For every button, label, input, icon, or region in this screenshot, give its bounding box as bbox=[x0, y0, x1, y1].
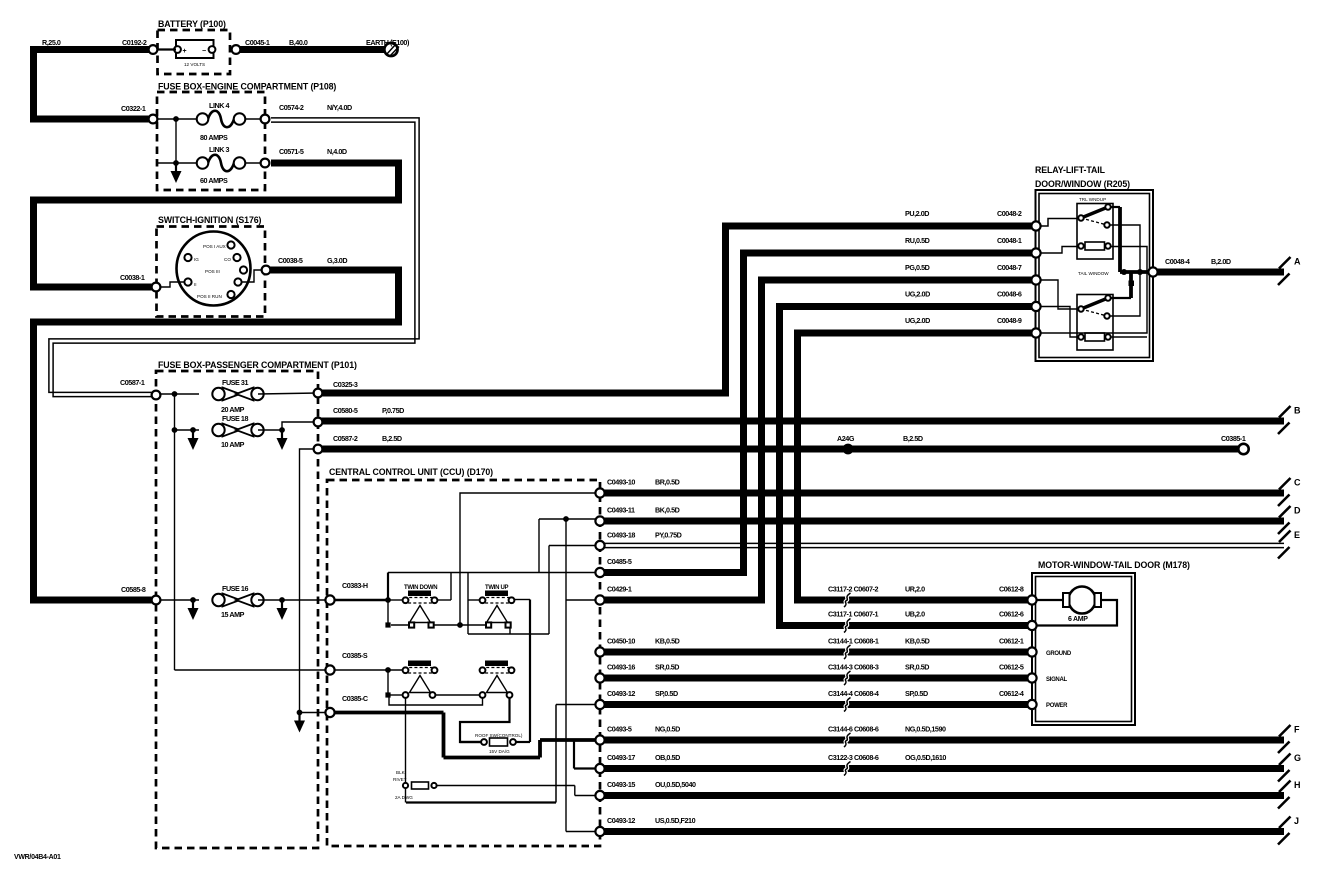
svg-text:IG: IG bbox=[194, 257, 199, 262]
svg-text:C3144-1 C0608-1: C3144-1 C0608-1 bbox=[828, 637, 879, 646]
svg-text:PU,2.0D: PU,2.0D bbox=[905, 209, 929, 218]
svg-text:C0612-6: C0612-6 bbox=[999, 610, 1024, 619]
svg-text:BATTERY (P100): BATTERY (P100) bbox=[158, 19, 226, 29]
svg-text:C3144-4 C0608-4: C3144-4 C0608-4 bbox=[828, 689, 879, 698]
svg-text:POWER: POWER bbox=[1046, 703, 1068, 709]
svg-text:US,0.5D,F210: US,0.5D,F210 bbox=[655, 816, 696, 825]
svg-text:C0493-17: C0493-17 bbox=[607, 753, 635, 762]
svg-text:B,2.5D: B,2.5D bbox=[903, 434, 923, 443]
svg-text:A24G: A24G bbox=[837, 434, 855, 443]
svg-text:C3144-6 C0608-6: C3144-6 C0608-6 bbox=[828, 725, 879, 734]
svg-text:R,25.0: R,25.0 bbox=[42, 38, 61, 47]
svg-text:C0048-1: C0048-1 bbox=[997, 236, 1022, 245]
svg-text:G,3.0D: G,3.0D bbox=[327, 256, 347, 265]
svg-text:C0612-8: C0612-8 bbox=[999, 585, 1024, 594]
svg-text:RU,0.5D: RU,0.5D bbox=[905, 236, 930, 245]
svg-text:EARTH (E100): EARTH (E100) bbox=[366, 38, 410, 47]
svg-text:FUSE BOX-ENGINE COMPARTMENT (P: FUSE BOX-ENGINE COMPARTMENT (P108) bbox=[158, 82, 336, 92]
svg-text:POS II RUN: POS II RUN bbox=[197, 294, 222, 299]
svg-text:F: F bbox=[1294, 725, 1300, 735]
svg-text:D: D bbox=[1294, 506, 1301, 516]
svg-text:10 AMP: 10 AMP bbox=[221, 440, 245, 449]
svg-text:C0580-5: C0580-5 bbox=[333, 406, 358, 415]
svg-text:E: E bbox=[1294, 530, 1300, 540]
svg-text:TAIL WINDOW: TAIL WINDOW bbox=[1078, 271, 1109, 276]
svg-text:C0493-11: C0493-11 bbox=[607, 506, 635, 515]
svg-text:C0048-7: C0048-7 bbox=[997, 263, 1022, 272]
svg-text:C0385-1: C0385-1 bbox=[1221, 434, 1246, 443]
svg-text:UR,2.0: UR,2.0 bbox=[905, 585, 925, 594]
svg-text:VWR/04B4-A01: VWR/04B4-A01 bbox=[14, 854, 61, 861]
svg-text:C0038-5: C0038-5 bbox=[278, 256, 303, 265]
svg-text:OG,0.5D,1610: OG,0.5D,1610 bbox=[905, 753, 946, 762]
svg-text:UG,2.0D: UG,2.0D bbox=[905, 290, 930, 299]
svg-text:PY,0.75D: PY,0.75D bbox=[655, 531, 682, 540]
svg-text:C0493-12: C0493-12 bbox=[607, 689, 635, 698]
svg-text:LINK 3: LINK 3 bbox=[209, 145, 230, 154]
svg-text:TWIN DOWN: TWIN DOWN bbox=[404, 585, 437, 591]
svg-text:C0485-5: C0485-5 bbox=[607, 557, 632, 566]
svg-text:C0493-10: C0493-10 bbox=[607, 478, 635, 487]
svg-text:B: B bbox=[1294, 406, 1301, 416]
svg-text:SP,0.5D: SP,0.5D bbox=[655, 689, 678, 698]
svg-text:60 AMPS: 60 AMPS bbox=[200, 176, 228, 185]
svg-text:N/Y,4.0D: N/Y,4.0D bbox=[327, 103, 352, 112]
svg-text:N,4.0D: N,4.0D bbox=[327, 147, 347, 156]
svg-text:A: A bbox=[1294, 257, 1301, 267]
svg-text:2A DWG: 2A DWG bbox=[395, 795, 413, 800]
svg-text:SR,0.5D: SR,0.5D bbox=[905, 663, 929, 672]
svg-text:CO: CO bbox=[224, 257, 231, 262]
svg-text:C0385-S: C0385-S bbox=[342, 651, 368, 660]
svg-text:LINK 4: LINK 4 bbox=[209, 101, 230, 110]
svg-text:BLK: BLK bbox=[396, 770, 406, 775]
svg-text:B,2.5D: B,2.5D bbox=[382, 434, 402, 443]
svg-text:FUSE 31: FUSE 31 bbox=[222, 378, 248, 387]
svg-text:C0038-1: C0038-1 bbox=[120, 273, 145, 282]
svg-text:C0048-9: C0048-9 bbox=[997, 316, 1022, 325]
svg-text:C0574-2: C0574-2 bbox=[279, 103, 304, 112]
svg-text:POS I AUX: POS I AUX bbox=[203, 244, 226, 249]
svg-text:OU,0.5D,5040: OU,0.5D,5040 bbox=[655, 780, 696, 789]
svg-text:FUSE BOX-PASSENGER COMPARTMENT: FUSE BOX-PASSENGER COMPARTMENT (P101) bbox=[158, 360, 357, 370]
svg-text:SWITCH-IGNITION (S176): SWITCH-IGNITION (S176) bbox=[158, 215, 262, 225]
svg-text:−: − bbox=[202, 48, 206, 55]
svg-text:20 AMP: 20 AMP bbox=[221, 405, 245, 414]
svg-text:UG,2.0D: UG,2.0D bbox=[905, 316, 930, 325]
svg-text:UB,2.0: UB,2.0 bbox=[905, 610, 925, 619]
svg-text:H: H bbox=[1294, 780, 1301, 790]
svg-text:6 AMP: 6 AMP bbox=[1068, 616, 1088, 623]
svg-text:C0385-C: C0385-C bbox=[342, 694, 368, 703]
svg-text:SIGNAL: SIGNAL bbox=[1046, 677, 1068, 683]
svg-text:POS III: POS III bbox=[205, 269, 220, 274]
svg-text:C3122-3 C0608-6: C3122-3 C0608-6 bbox=[828, 753, 879, 762]
svg-text:+: + bbox=[183, 48, 187, 55]
svg-text:B,40.0: B,40.0 bbox=[289, 38, 308, 47]
svg-text:KB,0.5D: KB,0.5D bbox=[905, 637, 930, 646]
svg-text:C0612-5: C0612-5 bbox=[999, 663, 1024, 672]
svg-text:MOTOR-WINDOW-TAIL DOOR (M178): MOTOR-WINDOW-TAIL DOOR (M178) bbox=[1038, 560, 1190, 570]
svg-text:CENTRAL CONTROL UNIT (CCU) (D1: CENTRAL CONTROL UNIT (CCU) (D170) bbox=[329, 467, 493, 477]
svg-text:C3117-1 C0607-1: C3117-1 C0607-1 bbox=[828, 610, 878, 619]
svg-text:C0045-1: C0045-1 bbox=[245, 38, 270, 47]
svg-text:C3117-2 C0607-2: C3117-2 C0607-2 bbox=[828, 585, 878, 594]
svg-text:BK,0.5D: BK,0.5D bbox=[655, 506, 680, 515]
svg-text:C0587-1: C0587-1 bbox=[120, 378, 145, 387]
svg-text:C: C bbox=[1294, 478, 1301, 488]
svg-text:C0493-16: C0493-16 bbox=[607, 663, 635, 672]
svg-text:C0322-1: C0322-1 bbox=[121, 104, 146, 113]
svg-text:II: II bbox=[194, 282, 197, 287]
svg-text:C0612-4: C0612-4 bbox=[999, 689, 1024, 698]
svg-text:SP,0.5D: SP,0.5D bbox=[905, 689, 928, 698]
svg-text:C0585-8: C0585-8 bbox=[121, 585, 146, 594]
svg-text:C0450-10: C0450-10 bbox=[607, 637, 635, 646]
svg-text:C0325-3: C0325-3 bbox=[333, 380, 358, 389]
svg-text:BR,0.5D: BR,0.5D bbox=[655, 478, 680, 487]
svg-text:C0429-1: C0429-1 bbox=[607, 585, 632, 594]
svg-text:PG,0.5D: PG,0.5D bbox=[905, 263, 930, 272]
svg-text:NG,0.5D,1590: NG,0.5D,1590 bbox=[905, 725, 946, 734]
svg-text:G: G bbox=[1294, 753, 1301, 763]
svg-text:TWIN UP: TWIN UP bbox=[485, 585, 509, 591]
svg-text:12 VOLTS: 12 VOLTS bbox=[184, 62, 205, 67]
svg-text:OB,0.5D: OB,0.5D bbox=[655, 753, 680, 762]
svg-text:B,2.0D: B,2.0D bbox=[1211, 257, 1231, 266]
svg-text:TRL WNDUP: TRL WNDUP bbox=[1079, 197, 1106, 202]
svg-text:ROOF SW(CONTROL): ROOF SW(CONTROL) bbox=[475, 733, 523, 738]
svg-text:C0587-2: C0587-2 bbox=[333, 434, 358, 443]
svg-text:NG,0.5D: NG,0.5D bbox=[655, 725, 680, 734]
svg-text:C0192-2: C0192-2 bbox=[122, 38, 147, 47]
svg-text:C0493-15: C0493-15 bbox=[607, 780, 635, 789]
svg-text:J: J bbox=[1294, 816, 1299, 826]
svg-text:RELAY-LIFT-TAIL: RELAY-LIFT-TAIL bbox=[1035, 165, 1106, 175]
svg-text:SR,0.5D: SR,0.5D bbox=[655, 663, 679, 672]
svg-text:GROUND: GROUND bbox=[1046, 651, 1072, 657]
svg-text:FUSE 18: FUSE 18 bbox=[222, 414, 248, 423]
svg-text:P,0.75D: P,0.75D bbox=[382, 406, 404, 415]
svg-text:DOOR/WINDOW (R205): DOOR/WINDOW (R205) bbox=[1035, 179, 1130, 189]
svg-text:C0048-2: C0048-2 bbox=[997, 209, 1022, 218]
svg-text:RIVET: RIVET bbox=[393, 777, 407, 782]
svg-text:C0571-5: C0571-5 bbox=[279, 147, 304, 156]
svg-text:C0493-5: C0493-5 bbox=[607, 725, 632, 734]
svg-text:15V DA/G: 15V DA/G bbox=[489, 749, 510, 754]
svg-text:KB,0.5D: KB,0.5D bbox=[655, 637, 680, 646]
svg-text:C0493-18: C0493-18 bbox=[607, 531, 635, 540]
svg-text:C3144-3 C0608-3: C3144-3 C0608-3 bbox=[828, 663, 879, 672]
svg-text:C0383-H: C0383-H bbox=[342, 581, 368, 590]
svg-text:C0048-4: C0048-4 bbox=[1165, 257, 1190, 266]
svg-text:FUSE 16: FUSE 16 bbox=[222, 584, 248, 593]
svg-text:C0612-1: C0612-1 bbox=[999, 637, 1024, 646]
svg-text:C0493-12: C0493-12 bbox=[607, 816, 635, 825]
svg-text:15 AMP: 15 AMP bbox=[221, 610, 245, 619]
svg-text:80 AMPS: 80 AMPS bbox=[200, 133, 228, 142]
svg-text:C0048-6: C0048-6 bbox=[997, 290, 1022, 299]
